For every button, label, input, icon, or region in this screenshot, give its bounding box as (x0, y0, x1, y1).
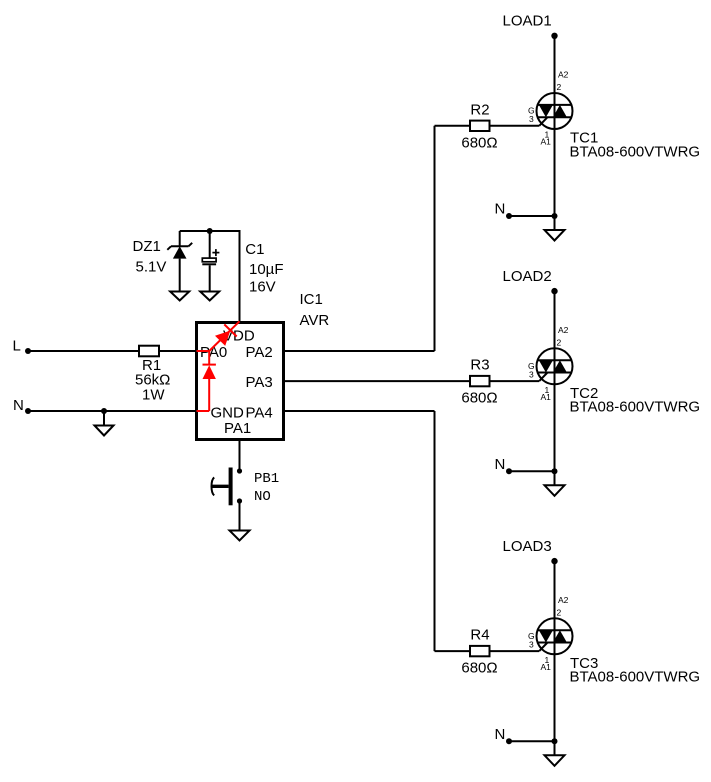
resistor R2 680 ohm (461, 101, 497, 151)
svg-text:NO: NO (254, 489, 271, 505)
wire to ground (554, 471, 556, 485)
svg-text:PA2: PA2 (246, 344, 273, 361)
junction C1 top (207, 228, 213, 234)
svg-text:A2: A2 (558, 70, 569, 80)
node N (TC2 A1) (495, 456, 513, 475)
zener diode DZ1 5.1V (133, 231, 193, 292)
triac TC3 BTA08-600VTWRG (537, 618, 573, 654)
node N (TC1 A1) (495, 201, 513, 220)
svg-text:2: 2 (557, 82, 562, 92)
wire IC1 PA1 to PB1 (239, 441, 241, 471)
pin labels A2/2, G/3, 1/A1 of TC1 (528, 70, 569, 147)
svg-text:GND: GND (211, 405, 245, 422)
wire to ground (554, 216, 556, 230)
pushbutton PB1 NO (212, 468, 280, 506)
svg-text:IC1: IC1 (300, 291, 323, 308)
triac TC1 BTA08-600VTWRG (537, 93, 573, 129)
svg-text:A2: A2 (558, 595, 569, 605)
diode D internal PA0 to VDD (red) (197, 321, 240, 351)
svg-text:PA4: PA4 (246, 405, 273, 422)
svg-text:680Ω: 680Ω (461, 660, 497, 677)
svg-text:16V: 16V (249, 279, 276, 296)
wire to ground (554, 741, 556, 755)
svg-text:BTA08-600VTWRG: BTA08-600VTWRG (570, 669, 701, 686)
wire IC1 PA4 right (284, 410, 435, 412)
svg-text:PA1: PA1 (224, 420, 251, 437)
svg-text:PB1: PB1 (254, 471, 279, 487)
junction TC2 A1/N (552, 468, 558, 474)
svg-text:3: 3 (529, 369, 534, 379)
svg-text:1W: 1W (142, 387, 165, 404)
wire gate of TC2 (490, 380, 540, 382)
svg-text:C1: C1 (245, 241, 264, 258)
node L (13, 338, 32, 355)
capacitor C1 10uF 16V (202, 231, 283, 296)
wire LOAD2 to N junction (vertical through TC2) (554, 291, 556, 471)
svg-text:L: L (13, 338, 21, 355)
svg-text:N: N (13, 397, 24, 414)
wire from left to R4 (435, 650, 471, 652)
wire L to R1 (28, 350, 139, 352)
ground (PB1) (230, 531, 250, 541)
pin labels of IC1 (200, 328, 273, 438)
svg-text:3: 3 (529, 639, 534, 649)
wire PA4 dropper to R4 (434, 411, 436, 651)
junction TC3 A1/N (552, 738, 558, 744)
value label TC2 BTA08-600VTWRG (570, 385, 701, 416)
wire gate of TC1 (490, 125, 540, 127)
wire from left to R3 (435, 380, 471, 382)
wire IC1 PA3 to R3 (284, 380, 435, 382)
resistor R3 680 ohm (461, 357, 497, 407)
svg-text:A1: A1 (541, 137, 552, 147)
svg-text:2: 2 (557, 337, 562, 347)
ground (TC2 N) (545, 485, 565, 496)
node LOAD1 (503, 13, 558, 40)
svg-text:N: N (495, 726, 506, 743)
IC IC1 AVR microcontroller box (197, 291, 330, 440)
svg-text:BTA08-600VTWRG: BTA08-600VTWRG (570, 399, 701, 416)
wire PB1 to ground (239, 501, 241, 531)
svg-text:10µF: 10µF (249, 261, 284, 278)
node N (TC3 A1) (495, 726, 513, 745)
triac TC2 BTA08-600VTWRG (537, 348, 573, 384)
resistor R1 56k 1W (135, 346, 170, 404)
svg-text:A2: A2 (558, 325, 569, 335)
wire VDD top rail (180, 231, 240, 321)
svg-text:BTA08-600VTWRG: BTA08-600VTWRG (570, 143, 701, 160)
svg-text:AVR: AVR (300, 312, 330, 329)
junction TC1 A1/N (552, 213, 558, 219)
svg-text:A1: A1 (541, 392, 552, 402)
svg-text:A1: A1 (541, 662, 552, 672)
wire N to A1 junction (509, 215, 555, 217)
diode D internal GND to PA0 (red) (197, 351, 216, 411)
svg-text:680Ω: 680Ω (461, 134, 497, 151)
node LOAD2 (503, 268, 558, 295)
wire N to A1 junction (509, 470, 555, 472)
svg-text:DZ1: DZ1 (133, 238, 161, 255)
pin labels A2/2, G/3, 1/A1 of TC2 (528, 325, 569, 402)
node LOAD3 (503, 538, 558, 565)
svg-text:R2: R2 (470, 101, 489, 118)
svg-text:LOAD2: LOAD2 (503, 268, 552, 285)
ground (C1) (200, 292, 219, 301)
wire R1 to IC1 PA0 (159, 350, 195, 352)
svg-text:R4: R4 (470, 627, 489, 644)
ground (N line) (95, 426, 114, 436)
svg-text:R3: R3 (470, 357, 489, 374)
svg-text:PA3: PA3 (246, 374, 273, 391)
svg-text:LOAD3: LOAD3 (503, 538, 552, 555)
wire N to A1 junction (509, 740, 555, 742)
wire LOAD1 to N junction (vertical through TC1) (554, 36, 556, 216)
wire from left to R2 (435, 125, 471, 127)
wire gate of TC3 (490, 650, 540, 652)
value label TC1 BTA08-600VTWRG (570, 130, 701, 161)
ground (TC3 N) (545, 755, 565, 766)
pin labels A2/2, G/3, 1/A1 of TC3 (528, 595, 569, 672)
node N (13, 397, 31, 414)
svg-text:3: 3 (529, 114, 534, 124)
svg-text:N: N (495, 201, 506, 218)
wire N to IC1 GND (28, 410, 195, 412)
wire PA2 riser to R2 (434, 126, 436, 351)
svg-text:680Ω: 680Ω (461, 390, 497, 407)
ground (TC1 N) (545, 230, 565, 241)
svg-text:2: 2 (557, 607, 562, 617)
svg-text:N: N (495, 456, 506, 473)
resistor R4 680 ohm (461, 627, 497, 677)
ground (DZ1) (170, 292, 189, 301)
junction N/ground (101, 408, 107, 414)
wire IC1 PA2 right (284, 350, 435, 352)
svg-text:5.1V: 5.1V (136, 259, 167, 276)
wire LOAD3 to N junction (vertical through TC3) (554, 561, 556, 741)
value label TC3 BTA08-600VTWRG (570, 655, 701, 686)
wire junction to ground (103, 411, 105, 426)
svg-text:LOAD1: LOAD1 (503, 13, 552, 30)
